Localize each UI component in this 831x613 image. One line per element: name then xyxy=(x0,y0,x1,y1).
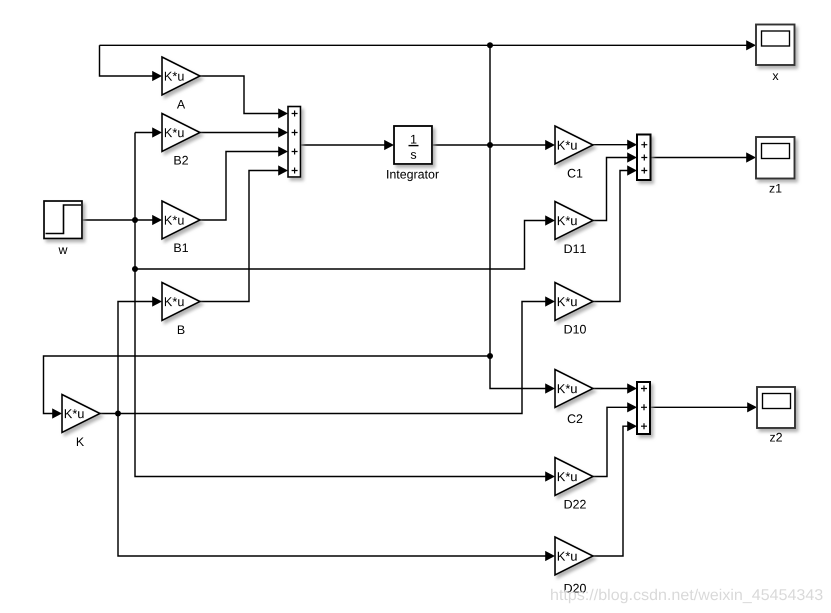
arrowhead into sum2 port1 xyxy=(627,140,637,150)
label D22 xyxy=(565,500,586,509)
step source w xyxy=(44,201,82,239)
wire state feedback to K input xyxy=(44,356,491,414)
wire w output to B1 input xyxy=(82,219,153,221)
gain D11 xyxy=(555,202,593,240)
arrowhead into B2 xyxy=(152,127,162,137)
sum mux3 xyxy=(637,382,650,434)
arrowhead into Integrator xyxy=(384,140,394,150)
node junction w-line y269 xyxy=(132,266,138,272)
label D10 xyxy=(565,325,586,334)
wire sum3 output to scope z2 xyxy=(650,406,748,408)
arrowhead into C2 xyxy=(545,383,555,393)
wire w branch down to D22 input xyxy=(135,133,546,477)
node junction state mid xyxy=(487,142,493,148)
wire A output to sum1 port1 xyxy=(200,76,279,114)
gain C2 xyxy=(555,370,593,408)
wire K branch down to D20 input xyxy=(118,414,546,557)
arrowhead into sum1 port1 xyxy=(278,108,288,118)
gain B xyxy=(162,283,200,321)
scope x xyxy=(756,25,795,66)
gain K xyxy=(62,395,100,433)
wire K branch up to B input xyxy=(118,302,153,414)
gain D22 xyxy=(555,458,593,496)
arrowhead into sum3 port1 xyxy=(627,383,637,393)
arrowhead into sum2 port2 xyxy=(627,152,637,162)
arrowhead into sum1 port2 xyxy=(278,127,288,137)
wire D10 output to sum2 port3 xyxy=(593,171,628,302)
arrowhead into B1 xyxy=(152,215,162,225)
wire C1 output to sum2 port1 xyxy=(593,144,628,146)
wire D11 output to sum2 port2 xyxy=(593,158,628,221)
wire K output to D10 input xyxy=(100,302,546,414)
arrowhead into B xyxy=(152,296,162,306)
arrowhead into scope z1 xyxy=(746,152,756,162)
label z2 xyxy=(770,433,782,442)
wire top feedback down to A input xyxy=(100,45,153,76)
arrowhead into sum3 port3 xyxy=(627,421,637,431)
arrowhead into sum3 port2 xyxy=(627,402,637,412)
label z1 xyxy=(770,184,782,193)
gain A xyxy=(162,57,200,95)
arrowhead into D20 xyxy=(545,551,555,561)
label K xyxy=(77,438,84,447)
gain D10 xyxy=(555,283,593,321)
arrowhead into sum2 port3 xyxy=(627,165,637,175)
wire C2 output to sum3 port1 xyxy=(593,388,628,390)
sum mux1 xyxy=(288,107,301,178)
label B xyxy=(178,326,185,335)
label w xyxy=(59,247,68,254)
wire D20 output to sum3 port3 xyxy=(593,426,628,556)
arrowhead into scope z2 xyxy=(747,402,757,412)
arrowhead into scope x xyxy=(746,40,756,50)
wire B2 output to sum1 port2 xyxy=(200,132,279,134)
label Integrator xyxy=(387,170,439,181)
wire sum2 output to scope z1 xyxy=(651,157,747,159)
wire Integrator output to C1 xyxy=(432,144,546,146)
gain C1 xyxy=(555,126,593,164)
label D20 xyxy=(565,584,586,593)
arrowhead into sum1 port4 xyxy=(278,165,288,175)
watermark xyxy=(551,589,822,604)
label D11 xyxy=(565,245,586,254)
label B1 xyxy=(174,244,188,253)
wire B output to sum1 port4 xyxy=(200,171,279,302)
arrowhead into D22 xyxy=(545,471,555,481)
wire B1 output to sum1 port3 xyxy=(200,152,279,221)
wire state top horizontal to scope x xyxy=(100,44,748,46)
integrator block xyxy=(394,126,432,164)
node junction state top xyxy=(487,42,493,48)
label x xyxy=(773,73,779,80)
gain B2 xyxy=(162,114,200,152)
node junction K output xyxy=(115,411,121,417)
label C1 xyxy=(568,169,583,178)
sum mux2 xyxy=(637,135,651,181)
gain B1 xyxy=(162,201,200,239)
arrowhead into C1 xyxy=(545,140,555,150)
arrowhead into sum1 port3 xyxy=(278,146,288,156)
arrowhead into K xyxy=(52,408,62,418)
gain D20 xyxy=(555,537,593,575)
wire into B2 input xyxy=(135,132,153,134)
arrowhead into D11 xyxy=(545,215,555,225)
scope z1 xyxy=(756,137,795,179)
label A xyxy=(177,100,185,109)
wire state vertical down to C2 input xyxy=(490,45,546,388)
label B2 xyxy=(174,156,188,165)
node junction w-line y220 xyxy=(132,217,138,223)
label C2 xyxy=(568,414,583,423)
wire w branch to D11 input xyxy=(135,221,546,270)
arrowhead into D10 xyxy=(545,296,555,306)
wire D22 output to sum3 port2 xyxy=(593,407,628,476)
wire sum1 output to Integrator xyxy=(301,144,385,146)
arrowhead into A xyxy=(152,71,162,81)
scope z2 xyxy=(757,387,795,428)
node junction state feedback xyxy=(487,353,493,359)
